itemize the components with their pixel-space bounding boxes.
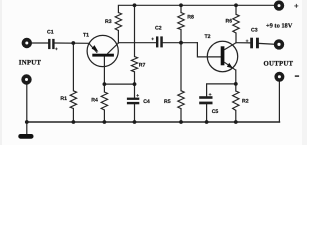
R5 top lead — [180, 43, 182, 91]
junction node C2/R8/R5/T2 base — [179, 41, 183, 45]
svg-text:+: + — [209, 92, 212, 98]
svg-text:C5: C5 — [212, 109, 219, 115]
svg-text:R5: R5 — [164, 99, 171, 105]
svg-text:+: + — [55, 47, 58, 53]
R5 bottom lead — [180, 109, 182, 122]
resistor R8 — [178, 13, 184, 30]
svg-text:C1: C1 — [47, 29, 54, 35]
capacitor C3 — [250, 38, 259, 49]
svg-text:+: + — [136, 93, 139, 99]
junction top rail / R6 — [234, 3, 238, 7]
junction top rail / R7 feed — [133, 3, 137, 7]
top rail — [118, 5, 274, 12]
svg-text:R3: R3 — [105, 19, 112, 25]
collector wire T1 to C2 — [118, 42, 156, 44]
terminal output - — [274, 72, 284, 82]
svg-text:+9 to 18V: +9 to 18V — [266, 22, 293, 29]
svg-text:C4: C4 — [143, 99, 150, 105]
wire junction to C3 — [236, 42, 250, 44]
capacitor C5 — [199, 96, 212, 104]
R7 line rail to zigzag — [134, 5, 136, 56]
ground stub — [26, 122, 28, 134]
terminal input - — [21, 74, 31, 84]
junction ground rail / R5 — [179, 120, 183, 124]
R4 leads — [103, 84, 105, 92]
ground bar — [18, 134, 33, 139]
wire C3 to output — [259, 42, 274, 45]
resistor R2 — [233, 91, 239, 110]
capacitor C1 — [48, 39, 55, 49]
junction ground rail left / input ground — [25, 120, 29, 124]
minus sign output — [295, 75, 299, 76]
capacitor C4 — [127, 98, 139, 105]
resistor R4 — [101, 92, 107, 110]
base node wire — [104, 83, 134, 85]
svg-text:C3: C3 — [251, 27, 258, 33]
terminal input + — [22, 38, 32, 48]
svg-text:+: + — [294, 1, 299, 10]
junction ground rail / R4 — [103, 120, 107, 124]
wire input to C1 — [32, 42, 49, 44]
output negative riser — [278, 82, 280, 122]
svg-text:T1: T1 — [83, 33, 89, 39]
transistor T2 — [207, 41, 237, 71]
junction node input/R1 — [71, 41, 75, 45]
svg-text:R7: R7 — [139, 63, 146, 69]
svg-text:R4: R4 — [91, 97, 98, 103]
bottom rail — [27, 121, 280, 123]
junction T2 emitter / C5 / R2 — [234, 82, 238, 86]
T1 base lead — [103, 56, 105, 84]
resistor R3 — [115, 13, 121, 31]
R2 leads — [235, 84, 237, 91]
junction T1 base node left — [103, 82, 107, 86]
resistor R6 — [233, 14, 239, 33]
svg-text:R8: R8 — [187, 15, 194, 21]
junction top rail / R8 — [179, 3, 183, 7]
svg-text:INPUT: INPUT — [19, 60, 42, 67]
wire R1 branch vertical — [72, 43, 74, 91]
svg-text:R2: R2 — [242, 99, 249, 105]
resistor R1 — [70, 91, 76, 109]
transistor T1 — [87, 35, 118, 66]
input ground lead — [26, 85, 28, 123]
R3 bottom lead — [117, 31, 119, 44]
junction T1 base node right / R7 / C4 — [133, 82, 137, 86]
T2 emitter vertical — [235, 70, 237, 84]
junction ground rail / C5 — [205, 120, 209, 124]
svg-text:+: + — [151, 37, 154, 43]
terminal +V — [274, 0, 284, 10]
scan edge shading — [302, 0, 307, 145]
svg-text:OUTPUT: OUTPUT — [264, 60, 294, 67]
terminal output + — [274, 39, 284, 49]
R8 top lead — [180, 5, 182, 12]
capacitor C2 — [156, 36, 163, 47]
resistor R7 — [131, 57, 137, 72]
resistor R5 — [178, 91, 184, 109]
C4 stubs — [134, 84, 136, 98]
C5 bottom stub — [206, 104, 208, 122]
R6 leads — [235, 5, 237, 14]
R7 bottom lead — [134, 72, 136, 84]
wire C1 to T1 emitter — [55, 42, 90, 44]
junction ground rail / R1 — [72, 120, 76, 124]
junction ground rail / C4 — [133, 120, 137, 124]
svg-text:R6: R6 — [226, 19, 233, 25]
svg-text:+: + — [246, 38, 249, 44]
svg-text:C2: C2 — [155, 26, 162, 32]
emitter node wire to C5 — [207, 84, 236, 96]
wire C2 to T2 base corner — [163, 42, 198, 44]
svg-text:R1: R1 — [60, 96, 67, 102]
T2 base step — [197, 43, 220, 57]
junction ground rail / R2 — [234, 120, 238, 124]
R8 bottom lead — [180, 30, 182, 43]
svg-text:T2: T2 — [205, 34, 211, 40]
